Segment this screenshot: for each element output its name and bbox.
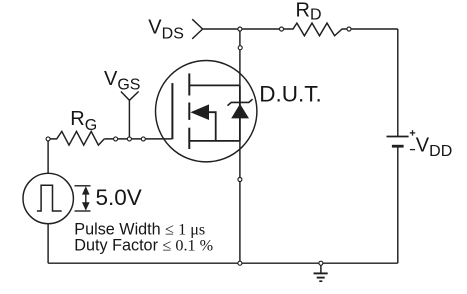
resistor RG xyxy=(50,131,104,145)
wire top rail: RD right terminal to top-right corner xyxy=(351,28,398,30)
battery plus sign xyxy=(410,130,415,135)
battery minus sign xyxy=(410,149,415,151)
pulse generator waveform xyxy=(37,185,62,211)
test point VGS (arrow symbol with stem) xyxy=(121,92,139,139)
MOSFET D.U.T. body circle xyxy=(156,60,257,161)
terminal circle gate 2 (VGS tap) xyxy=(127,137,131,141)
terminal circle gate 3 xyxy=(141,137,145,141)
wire right rail down to battery + xyxy=(397,29,399,137)
svg-text:D.U.T.: D.U.T. xyxy=(259,82,322,107)
wire drain vertical: top rail junction down into MOSFET xyxy=(239,29,241,85)
terminal circle RG left xyxy=(46,137,50,141)
svg-text:Duty Factor ≤ 0.1 %: Duty Factor ≤ 0.1 % xyxy=(74,236,213,254)
MOSFET gate bar xyxy=(171,83,173,139)
pulse generator V1 circle xyxy=(23,173,73,223)
MOSFET channel dash (source) xyxy=(188,128,190,149)
wire source vertical: MOSFET source down to bottom rail xyxy=(239,141,241,263)
body diode D1 anode triangle xyxy=(231,104,249,119)
junction node source / bottom rail xyxy=(238,261,242,265)
terminal circle RD left xyxy=(280,27,284,31)
wire left rail: RG left terminal down to pulse generator top xyxy=(47,140,49,173)
MOSFET drain bar xyxy=(189,84,240,86)
wire gate: RG right side to MOSFET gate xyxy=(104,138,171,140)
svg-text:5.0V: 5.0V xyxy=(96,185,142,210)
MOSFET channel dash (drain) xyxy=(188,73,190,95)
MOSFET body arrow xyxy=(190,104,209,120)
MOSFET source bar xyxy=(189,140,240,142)
terminal circle gate 1 xyxy=(114,137,118,141)
wire battery - down to bottom-right corner xyxy=(397,146,399,263)
MOSFET channel dash (body) xyxy=(188,103,190,120)
junction node ground tap xyxy=(319,261,323,265)
terminal circle drain sense xyxy=(238,46,242,50)
wire top rail: VDS tap to RD left terminal xyxy=(203,28,280,30)
wire bottom rail xyxy=(48,262,398,264)
terminal circle RD right xyxy=(347,27,351,31)
dimension arrow for 5.0V xyxy=(75,186,91,211)
battery VDD minus plate xyxy=(392,145,404,148)
wire left rail: pulse generator bottom to bottom-left corner xyxy=(47,224,49,264)
ground symbol xyxy=(314,265,328,281)
junction node drain top (VDS tap) xyxy=(238,27,242,31)
test point VDS (arrow symbol) xyxy=(192,19,202,39)
body diode D1 cathode bar xyxy=(228,99,253,105)
MOSFET internal drain-source line xyxy=(239,85,241,140)
resistor RD xyxy=(283,23,347,36)
battery VDD plus plate xyxy=(387,136,409,138)
terminal circle source sense xyxy=(238,178,242,182)
